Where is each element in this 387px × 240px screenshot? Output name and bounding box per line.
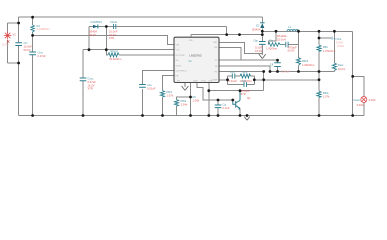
wire Cbp column [261,35,263,42]
capacitor Cq [193,95,230,110]
junction (190.5,115.5) [189,114,192,117]
wire VCC row [83,49,174,51]
capacitor Ccomp2 [241,79,250,96]
IC U1 LM25576 [174,37,219,82]
svg-text:Rsync: Rsync [111,49,119,53]
wire pinA to ground column [219,42,262,53]
wire SS to Css [143,71,175,85]
svg-text:Rfbt: Rfbt [323,45,328,49]
svg-text:X7R: X7R [241,92,246,96]
wire Cvcc column [82,50,84,78]
junction (208.8,90.7) [207,89,210,92]
svg-text:V=Out: V=Out [334,37,342,41]
svg-text:12.0V: 12.0V [2,43,9,47]
resistor RfbB [175,99,188,107]
junction (270,71.5) [269,70,272,73]
wire D2 column top [261,17,263,22]
wire R1 column top [32,17,34,25]
svg-text:16.0m: 16.0m [338,67,346,71]
capacitor Cff [270,62,291,73]
wire V1 vertical bottom [7,40,9,63]
svg-text:1.00MOhm: 1.00MOhm [37,27,51,31]
svg-text:VCC: VCC [176,50,181,52]
wire bottom pin step to Q1 base [197,83,233,101]
svg-text:Rfb1: Rfb1 [167,90,173,94]
junction (276,31.3) [275,30,278,33]
wire Vout label stub [319,37,331,39]
junction (247,115.5) [246,114,249,117]
svg-text:Cc2: Cc2 [241,79,246,83]
junction (190.5,97) [189,96,192,99]
svg-text:SYNC: SYNC [176,65,182,67]
svg-text:D1N5819: D1N5819 [91,20,103,24]
wire FB down to rail [318,80,320,91]
junction (334.4,31.3) [333,30,336,33]
resistor Rfbt [317,45,336,53]
wire top rail VIN [19,16,263,18]
svg-text:Cc1: Cc1 [230,70,235,74]
wire Css lower [142,89,144,116]
svg-text:3.00A: 3.00A [337,44,344,48]
svg-text:V1: V1 [13,33,17,37]
svg-text:0.1uF: 0.1uF [223,106,230,110]
junction (142.5,115.5) [141,114,144,117]
svg-text:Rfb2: Rfb2 [181,99,187,103]
diode D2 catch [252,23,264,32]
wire Vout row [262,30,352,32]
junction (298.5,31.3) [297,30,300,33]
wire load tap [353,76,364,96]
wire V1 bottom link [8,62,19,64]
ground symbol under IC [182,83,189,91]
svg-text:X7R: X7R [109,36,114,40]
wire boot rail [89,26,227,28]
junction (208.8,115.5) [207,114,210,117]
svg-text:1.00k: 1.00k [193,98,200,102]
wire IC gnd column [190,83,192,116]
wire step to comp drop [209,90,264,92]
svg-text:Cff: Cff [270,62,274,66]
capacitor Cvcc [80,77,97,91]
voltage source V1 [4,32,12,43]
junction (162.5,115.5) [161,114,164,117]
svg-text:1.00Ohm: 1.00Ohm [266,46,278,50]
resistor Resr [332,63,346,71]
capacitor Cbp [253,39,266,53]
junction (254.3,79.8) [253,78,256,81]
junction (263.7,71.5) [262,70,265,73]
wire SW pin stub [190,35,192,38]
wire RT row right [119,54,174,56]
wire rowB [270,71,334,73]
svg-text:LM25763: LM25763 [189,53,201,57]
diode D1 [89,20,102,37]
wire boot node drop [105,27,107,50]
svg-text:Resr: Resr [338,63,344,67]
svg-text:0.01uF: 0.01uF [147,87,156,91]
svg-text:49.9kOhm: 49.9kOhm [109,57,122,61]
svg-text:Rfbb: Rfbb [323,91,329,95]
junction (106.3,26.5) [105,25,108,28]
svg-text:X7R: X7R [88,87,93,91]
wire Rfbt column [318,31,320,45]
wire Resr column [333,31,335,63]
svg-text:Cin: Cin [24,41,29,45]
svg-text:Cboot: Cboot [110,20,117,24]
wire Cvcc column lower [82,81,84,115]
wire comp drop to bottom step [263,72,265,91]
wire rowB2 [219,71,264,73]
svg-text:Cinx: Cinx [38,51,44,55]
wire comp pin row [219,79,228,81]
resistor Rc298 [297,58,316,67]
junction (18.6,63) [17,62,20,65]
junction (262.3,34.6) [261,33,264,36]
svg-text:OUT/TRCK: OUT/TRCK [176,71,188,73]
resistor Rt [108,49,122,61]
load Iload [354,97,376,107]
svg-text:VO: VO [214,60,217,62]
wire RA lower [162,97,164,116]
wire snubber drop [269,31,277,43]
wire comp row out [254,79,319,81]
svg-text:D2: D2 [256,23,260,27]
wire R1 column mid [32,33,34,52]
svg-text:Css: Css [147,83,152,87]
wire comp node A riser [227,76,229,85]
wire comp bottom branch [228,84,245,86]
capacitor Ccomp [229,70,238,83]
wire Rc lower [298,65,300,71]
resistor Rfbb [317,91,330,99]
wire Cff lower [277,67,279,72]
svg-text:3.00A: 3.00A [369,98,376,102]
wire pinB step [219,48,241,61]
junction (298.5,71.5) [297,70,300,73]
svg-text:OUT: OUT [208,81,213,83]
wire comp top branch [228,75,233,77]
svg-text:Rc1: Rc1 [243,70,248,74]
capacitor Cboot [107,20,122,40]
wire Cin column lower [18,46,20,116]
svg-text:0.01uF: 0.01uF [229,79,238,83]
junction (352.7,115.5) [351,114,354,117]
wire VIN sense to IC [33,35,174,44]
wire rowA to Cff [219,59,278,61]
svg-text:B340A: B340A [252,27,260,31]
svg-text:0.47uF: 0.47uF [38,54,47,58]
junction (263.7,79.8) [262,78,265,81]
junction (232.8,100) [231,99,234,102]
wire comp bottom branch right [247,84,255,86]
wire Rfbt lower [318,52,320,80]
junction (218,115.5) [217,114,220,117]
wire Cff column [277,60,279,62]
junction (319,79.8) [318,78,321,81]
junction (319,71.5) [318,70,321,73]
junction (319,31.3) [318,30,321,33]
svg-text:40.0V: 40.0V [89,33,96,37]
svg-text:Cvcc: Cvcc [88,77,95,81]
wire boot step down [226,27,228,35]
junction (239.5,34.6) [238,33,241,36]
capacitor Css [139,83,156,91]
svg-text:PG: PG [177,81,180,83]
wire RfbB jog [177,97,191,100]
junction (32.6,35.4) [31,34,34,37]
capacitor Cinx [29,51,46,59]
junction (89,49.7) [88,48,91,51]
svg-text:3.00A: 3.00A [357,103,364,107]
wire load column [352,31,354,115]
junction (32.6,17.2) [31,16,34,19]
svg-text:Rffcb: Rffcb [302,59,309,63]
ground symbol near Cbp [259,45,266,59]
junction (32.6,115.5) [31,114,34,117]
wire ground rail [19,115,364,117]
wire D1 anode drop [88,27,90,50]
node label Vout [332,37,344,48]
svg-text:3300pF: 3300pF [281,69,290,73]
wire V1 vertical top [7,23,9,33]
wire FB left pin [163,76,175,91]
resistor R1 [31,24,51,33]
wire Rc column top [298,31,300,58]
wire SW row [191,34,262,36]
wire Resr lower [333,71,335,72]
wire comp node B riser [253,76,255,85]
svg-text:50.0V: 50.0V [24,48,31,52]
resistor Rsnub [266,38,284,50]
junction (240,115.5) [239,114,242,117]
wire bottom pin column [208,83,210,116]
wire Cq column [217,100,219,105]
wire D2 column bottom [261,29,263,35]
junction (226.7,34.6) [225,33,228,36]
svg-text:GND: GND [193,81,198,83]
svg-text:15.0uH: 15.0uH [277,37,286,41]
wire R1 column bottom [32,55,34,116]
junction (277.5,60.2) [276,59,279,62]
junction (83,115.5) [82,114,85,117]
inductor L1 [277,25,299,42]
wire Cin column [18,17,20,42]
junction (106.3,49.7) [105,48,108,51]
junction (18.6,23) [17,22,20,25]
svg-text:3.24k: 3.24k [181,103,188,107]
wire Cq lower [217,108,219,116]
svg-text:RT/SYNC: RT/SYNC [176,55,186,57]
junction (227.5,79.8) [226,78,229,81]
svg-text:PG: PG [214,71,217,73]
wire RfbB lower [176,106,178,116]
junction (262.3,31.3) [261,30,264,33]
svg-text:1.00kOhm: 1.00kOhm [302,63,315,67]
junction (319,115.5) [318,114,321,117]
wire Q1 emitter to rail [239,109,241,116]
svg-text:16.0V: 16.0V [255,49,262,53]
wire RT row [106,50,108,55]
svg-text:L1: L1 [288,25,291,29]
svg-text:1.07kOhm: 1.07kOhm [323,49,336,53]
capacitor Csnub [284,42,297,53]
wire rowA2 step [219,66,270,72]
resistor Rcomp [240,70,253,83]
svg-text:BST: BST [213,42,218,44]
svg-text:VIN: VIN [176,45,180,47]
wire load lower [363,103,365,116]
wire snubber cap to riser [289,31,299,44]
junction (240,90.7) [239,89,242,92]
wire comp top branch mid [235,75,240,77]
svg-text:50.0V: 50.0V [288,49,295,53]
junction (319,38) [318,37,321,40]
wire comp top branch right [251,75,255,77]
svg-text:1.07k: 1.07k [323,95,330,99]
capacitor Cin [15,41,32,52]
ground on rail [244,116,250,121]
junction (218,100) [217,99,220,102]
svg-text:SYN: SYN [201,81,206,83]
wire V1 top link [8,22,19,24]
junction (352.7,76.4) [351,75,354,78]
svg-text:Iload: Iload [354,98,360,102]
junction (277.5,71.5) [276,70,279,73]
transistor Q1 [233,91,240,109]
svg-text:Cbp: Cbp [253,39,258,43]
svg-text:1.07k: 1.07k [167,94,174,98]
svg-text:Cq: Cq [223,103,227,107]
resistor RA [161,90,174,98]
svg-text:Q1: Q1 [247,96,251,100]
